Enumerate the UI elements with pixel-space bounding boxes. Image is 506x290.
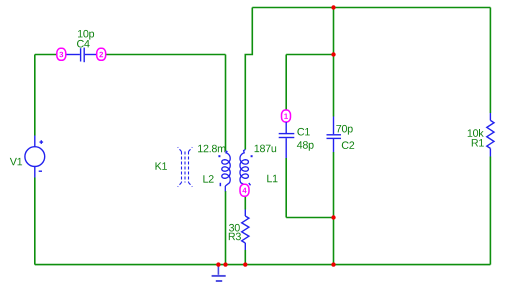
wire right vertical lower (R1 branch): [489, 157, 491, 265]
label L1: [267, 175, 277, 182]
junction dot 5: [216, 262, 220, 266]
wire C4 row right segment to L2 corner: [106, 54, 226, 56]
wire C1 bottom horizontal to mid rail: [286, 217, 333, 219]
node 2: [97, 48, 106, 60]
label R1: [472, 139, 484, 146]
inductor L1: [240, 150, 248, 185]
inductor L2: [222, 151, 230, 186]
resistor R1: [489, 113, 491, 120]
junction dot 6: [223, 262, 227, 266]
junction dot 2: [331, 52, 335, 56]
voltage source V1: [25, 136, 45, 178]
node 4: [240, 184, 249, 196]
label L2: [203, 175, 213, 183]
wire C4 row left segment: [35, 54, 57, 56]
label C1: [297, 128, 309, 136]
L1 phase dot: [251, 155, 253, 157]
node 3: [57, 48, 66, 60]
wire C1 top vertical to node 1: [285, 55, 287, 111]
L2 phase dot: [218, 155, 220, 157]
label 10k (R1 value): [468, 129, 484, 137]
capacitor C2: [327, 117, 342, 153]
junction dot 3: [331, 215, 335, 219]
wire R3 bottom to bottom rail: [244, 250, 246, 265]
junction dot 7: [243, 262, 247, 266]
label 30 (R3 value): [229, 224, 240, 232]
label 12.8m (L2 value): [198, 145, 225, 153]
label K1: [156, 162, 167, 169]
label R3: [229, 233, 241, 241]
wire top horizontal: [252, 7, 490, 9]
label 10p (C4 value): [78, 30, 94, 40]
label 48p (C1 value): [297, 141, 314, 151]
wire L2 bottom vertical: [225, 191, 227, 265]
label C2: [342, 141, 354, 149]
wire C1 top horizontal from mid rail: [286, 54, 333, 56]
L2 bottom pin marker: [220, 183, 222, 186]
wire node4 to R3: [244, 196, 246, 209]
wire bottom horizontal: [35, 264, 491, 266]
label 187u (L1 value): [255, 145, 277, 153]
capacitor C4: [66, 48, 97, 63]
wire left vertical upper (V1 branch): [34, 55, 36, 136]
label 70p (C2 value): [336, 125, 352, 135]
wire right vertical upper (R1 branch): [489, 8, 491, 114]
wire mid rail upper: [333, 8, 335, 117]
wire L2 top vertical: [225, 55, 227, 152]
wire C1 bottom vertical: [285, 158, 287, 218]
node 1: [282, 110, 291, 122]
label C4: [77, 40, 90, 48]
capacitor C1: [279, 122, 295, 158]
L1 bottom pin marker: [249, 183, 251, 185]
wire L1 feed from top wire with jog: [245, 8, 252, 150]
wire mid rail lower: [333, 152, 335, 265]
junction dot 1: [331, 5, 335, 9]
ground: [212, 265, 226, 281]
junction dot 4: [331, 262, 335, 266]
label V1: [10, 158, 22, 165]
L2 bottom blue stub: [224, 186, 226, 191]
coupling K1 symbol: [178, 147, 193, 187]
resistor R3: [244, 210, 246, 217]
wire left vertical lower (V1 branch): [34, 178, 36, 265]
